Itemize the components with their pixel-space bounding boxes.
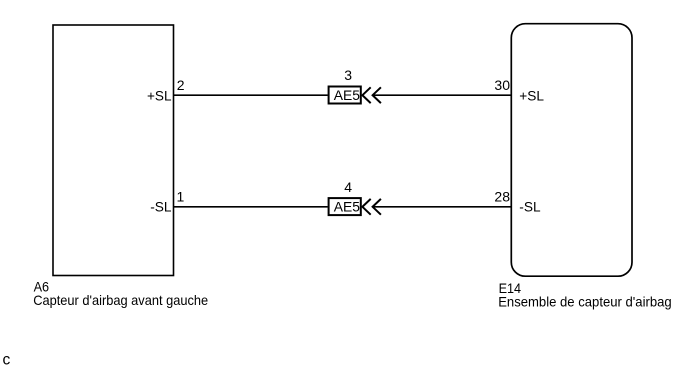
chevron pair (lower, pointing left): [362, 199, 370, 215]
svg-text:Ensemble de capteur d'airbag: Ensemble de capteur d'airbag: [498, 293, 672, 309]
svg-text:-SL: -SL: [519, 199, 540, 215]
wire +SL right segment: [373, 94, 512, 96]
wire -SL left segment: [174, 206, 328, 208]
svg-text:AE5: AE5: [334, 198, 360, 214]
svg-text:1: 1: [177, 189, 185, 205]
wire -SL right segment: [373, 206, 512, 208]
svg-text:2: 2: [177, 77, 185, 93]
svg-text:28: 28: [494, 189, 510, 205]
svg-text:Capteur d'airbag avant gauche: Capteur d'airbag avant gauche: [33, 292, 208, 308]
svg-text:c: c: [3, 352, 11, 366]
connector A6 (left rectangle): [53, 25, 174, 276]
splice connector AE5 (lower box): [329, 198, 361, 215]
svg-text:+SL: +SL: [147, 87, 172, 103]
wire +SL left segment: [174, 94, 328, 96]
splice connector AE5 (upper box): [329, 87, 361, 104]
svg-text:+SL: +SL: [519, 87, 544, 103]
svg-text:4: 4: [344, 179, 352, 195]
connector E14 (right rounded rectangle): [511, 24, 632, 277]
svg-text:AE5: AE5: [334, 87, 360, 103]
svg-text:30: 30: [494, 77, 510, 93]
svg-text:3: 3: [344, 67, 352, 83]
svg-text:-SL: -SL: [150, 199, 171, 215]
chevron pair (upper, pointing left): [362, 87, 370, 103]
